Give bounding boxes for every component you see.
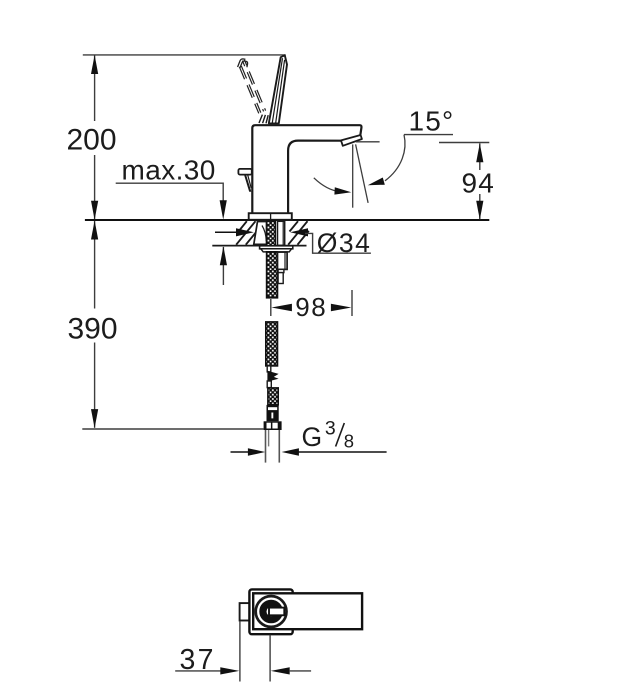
- svg-text:Ø34: Ø34: [317, 228, 372, 258]
- 15 deg tilted line: [356, 144, 369, 203]
- lever (dashed alternate position): [238, 60, 266, 114]
- svg-text:94: 94: [462, 167, 496, 198]
- 94 dimension: [439, 142, 489, 144]
- counter top line: [85, 219, 489, 221]
- arrow up max30 below counter: [222, 247, 224, 285]
- aerator (tilted): [341, 135, 362, 146]
- bottom extension line (390 end): [82, 428, 263, 430]
- 37 dimension: [239, 622, 241, 682]
- arrow up below counter (390): [91, 221, 98, 240]
- threaded shank (checker): [267, 221, 276, 246]
- base flange: [249, 213, 292, 220]
- pop-up knob: [238, 169, 251, 175]
- hex nut: [264, 421, 282, 430]
- svg-text:200: 200: [66, 124, 116, 157]
- dimension line 200/390 (left vertical): [94, 56, 96, 428]
- counter underside line: [212, 245, 306, 247]
- lower hose segment 1: [266, 322, 278, 366]
- svg-text:98: 98: [295, 292, 327, 322]
- left arc: [314, 178, 340, 192]
- spout underside + right edge of body: [288, 141, 341, 214]
- connection nipple G3/8: [265, 430, 267, 463]
- lever (solid): [269, 55, 287, 123]
- G3/8 dimension: [231, 451, 249, 453]
- top extension line: [83, 54, 286, 56]
- svg-text:G: G: [302, 422, 323, 452]
- svg-text:390: 390: [67, 313, 117, 346]
- Ø34 leader + label: [305, 233, 371, 253]
- svg-text:8: 8: [344, 431, 354, 452]
- small dashes at lever base: [259, 115, 268, 124]
- 98 dimension: [270, 299, 272, 316]
- arrow up at top line: [91, 55, 98, 74]
- lower hose segment 2: [268, 388, 278, 405]
- logo ring: [263, 603, 279, 619]
- body square: [249, 589, 292, 634]
- pop-up rod taper: [244, 175, 251, 192]
- svg-text:15°: 15°: [409, 105, 455, 136]
- knob (top view): [240, 603, 251, 620]
- 15 deg reference: vertical line: [352, 144, 354, 207]
- hose break symbol: [267, 366, 271, 372]
- faucet body outline: [252, 125, 361, 213]
- svg-text:37: 37: [180, 644, 216, 676]
- gasket trapezoid below counter: [254, 222, 267, 245]
- pop-up rod below deck: [278, 252, 288, 269]
- Ø34 pointer arrows: [215, 231, 237, 233]
- spout rectangle: [253, 593, 362, 629]
- svg-text:3: 3: [325, 418, 336, 440]
- cartridge outer circle: [256, 596, 287, 627]
- svg-text:max.30: max.30: [122, 155, 216, 186]
- counter hatch left: [236, 221, 257, 245]
- logo bar: [269, 608, 284, 616]
- right arc (leader from 15deg): [385, 135, 405, 181]
- horizontal ref from aerator: [356, 141, 380, 143]
- arrow down max30 at counter: [220, 200, 227, 219]
- counter hatch right: [288, 221, 309, 245]
- mounting nut / washer: [260, 246, 293, 249]
- rod guide right of shank: [278, 221, 285, 245]
- upper hose (braided): [267, 252, 278, 298]
- arrow down at bottom (390): [91, 409, 98, 428]
- crimp sleeve: [267, 405, 279, 421]
- arrow down at counter (200): [91, 201, 98, 220]
